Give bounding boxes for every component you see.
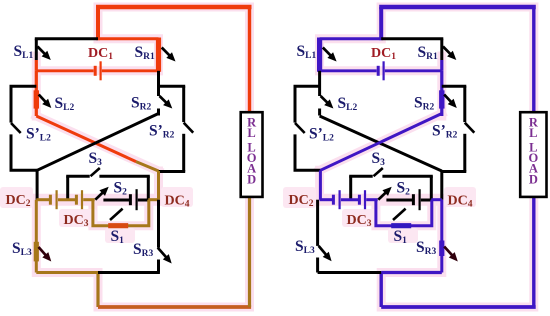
- svg-text:L: L: [247, 126, 255, 140]
- svg-text:L: L: [529, 126, 537, 140]
- svg-text:D: D: [247, 173, 256, 187]
- svg-text:D: D: [529, 173, 538, 187]
